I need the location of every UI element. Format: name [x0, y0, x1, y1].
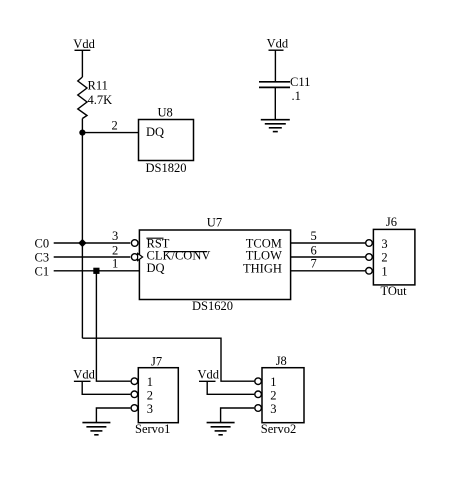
pin bubble + clock wedge CLK/CONV — [131, 253, 142, 260]
svg-text:6: 6 — [311, 243, 317, 257]
svg-text:C1: C1 — [35, 264, 50, 278]
svg-text:3: 3 — [147, 402, 153, 416]
svg-text:4.7K: 4.7K — [88, 93, 113, 107]
svg-text:Vdd: Vdd — [73, 37, 95, 51]
power symbol Vdd (top right) — [267, 37, 289, 82]
svg-text:1: 1 — [270, 375, 276, 389]
power symbol Vdd (top left) — [73, 37, 95, 77]
resistor R11 4.7K — [78, 77, 112, 119]
svg-text:Vdd: Vdd — [267, 37, 289, 51]
svg-text:R11: R11 — [88, 79, 108, 93]
connector J6 TOut — [373, 215, 415, 298]
svg-text:3: 3 — [270, 402, 276, 416]
pin bubble J8-1 — [255, 378, 262, 385]
svg-text:1: 1 — [381, 264, 387, 278]
wire main vertical C0 net — [81, 119, 83, 339]
svg-text:Servo1: Servo1 — [135, 422, 170, 436]
pin bubble J8-2 — [255, 391, 262, 398]
svg-text:THIGH: THIGH — [243, 262, 282, 276]
IC U7 DS1620 — [139, 215, 290, 313]
pin bubble J8-3 — [255, 405, 262, 412]
svg-text:3: 3 — [381, 237, 387, 251]
pin bubble J7-3 — [131, 405, 138, 412]
svg-text:Vdd: Vdd — [73, 368, 95, 382]
ground (J8) — [207, 423, 235, 435]
svg-text:J7: J7 — [151, 355, 162, 369]
power symbol Vdd (J7) — [73, 368, 130, 395]
svg-text:.1: .1 — [292, 89, 301, 103]
svg-text:1: 1 — [147, 375, 153, 389]
svg-text:3: 3 — [112, 229, 118, 243]
pin bubble J7-2 — [131, 391, 138, 398]
pin bubble RST — [131, 240, 138, 247]
svg-text:U7: U7 — [207, 215, 222, 229]
wire J8 pin3 to ground — [221, 408, 255, 423]
svg-text:C11: C11 — [290, 75, 310, 89]
pin bubble J7-1 — [131, 378, 138, 385]
pin bubble J6-2 — [366, 254, 373, 261]
svg-text:TOut: TOut — [381, 284, 408, 298]
wire TLOW to J6 pin 2 — [291, 256, 366, 258]
svg-text:2: 2 — [270, 388, 276, 402]
junction at R11/U8 DQ — [79, 130, 85, 136]
junction C0/RST (diamond) — [78, 239, 86, 247]
svg-text:J8: J8 — [276, 354, 287, 368]
svg-text:DS1620: DS1620 — [192, 299, 233, 313]
connector J7 Servo1 — [135, 355, 178, 437]
junction C1/DQ (square) — [93, 268, 99, 274]
wire J7 pin3 to ground — [96, 408, 130, 423]
svg-text:DQ: DQ — [147, 261, 165, 275]
capacitor C11 .1 — [259, 75, 310, 120]
pin RST (with overline) — [146, 236, 169, 250]
svg-text:2: 2 — [112, 119, 118, 133]
svg-text:U8: U8 — [158, 106, 173, 120]
svg-text:2: 2 — [147, 388, 153, 402]
ground (J7) — [82, 423, 110, 435]
power symbol Vdd (J8) — [198, 368, 255, 395]
svg-text:DS1820: DS1820 — [146, 161, 187, 175]
svg-text:C3: C3 — [35, 250, 50, 264]
wire C1 branch down to J7 pin 1 — [96, 271, 130, 381]
wire to U8 DQ pin 2 — [82, 119, 138, 133]
svg-text:1: 1 — [112, 257, 118, 271]
svg-text:J6: J6 — [386, 215, 397, 229]
svg-text:7: 7 — [311, 257, 317, 271]
svg-text:2: 2 — [381, 251, 387, 265]
node C3 — [35, 250, 131, 264]
connector J8 Servo2 — [261, 354, 304, 436]
pin CLK/CONV (overline over CONV) — [147, 249, 211, 263]
wire TCOM to J6 pin 3 — [291, 242, 366, 244]
ground (below C11) — [261, 120, 290, 132]
pin bubble J6-1 — [366, 268, 373, 275]
svg-text:Servo2: Servo2 — [261, 422, 296, 436]
svg-text:DQ: DQ — [146, 125, 164, 139]
wire THIGH to J6 pin 1 — [291, 270, 366, 272]
pin bubble J6-3 — [366, 240, 373, 247]
svg-text:C0: C0 — [35, 236, 50, 250]
svg-text:TLOW: TLOW — [246, 249, 282, 263]
IC U8 DS1820 — [139, 106, 194, 176]
node C1 — [35, 264, 140, 278]
node C0 — [35, 236, 131, 250]
svg-text:5: 5 — [311, 229, 317, 243]
wire C0 branch down to J8 pin 1 — [82, 338, 254, 381]
svg-text:Vdd: Vdd — [198, 368, 220, 382]
svg-text:2: 2 — [112, 243, 118, 257]
